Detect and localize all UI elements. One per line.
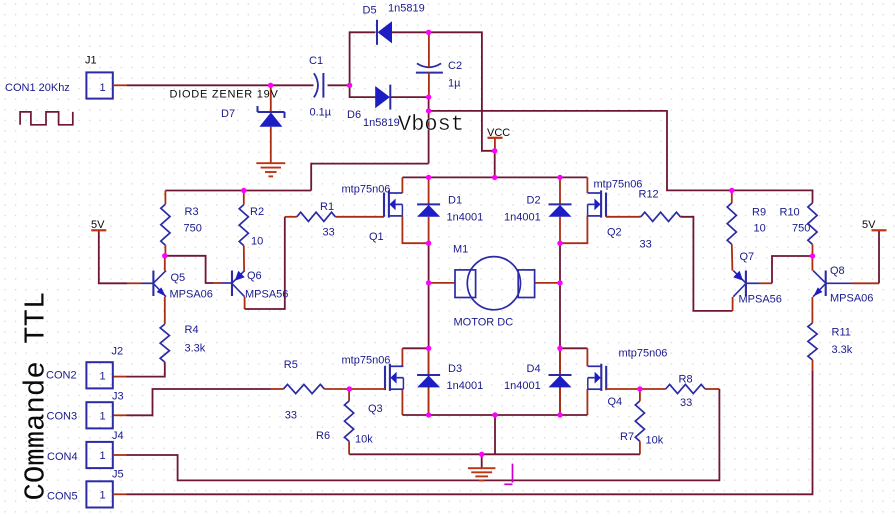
resistor R8	[640, 388, 666, 390]
power symbol 5V right bar	[872, 229, 887, 231]
svg-text:D3: D3	[448, 363, 462, 375]
wire Q6 collector down	[244, 297, 246, 309]
transistor Q3 mtp75n06	[384, 366, 386, 390]
power symbol 5V left bar	[91, 229, 106, 231]
svg-text:R12: R12	[639, 188, 659, 200]
wire D1 cathode lead	[428, 177, 430, 204]
wire D4 leads	[559, 348, 561, 375]
wire Q8 collector lead	[811, 256, 813, 271]
svg-text:1: 1	[100, 490, 106, 502]
wire D2 anode lead	[559, 217, 561, 243]
wire R1 left lead	[285, 216, 297, 218]
wire Q5 node to Q6 base jog	[165, 256, 213, 283]
wire Q5 emitter to R4	[164, 297, 166, 324]
svg-text:3.3k: 3.3k	[185, 343, 206, 355]
svg-text:1: 1	[100, 410, 106, 422]
svg-text:Q7: Q7	[740, 251, 755, 263]
svg-text:mtp75n06: mtp75n06	[342, 183, 391, 195]
transistor Q4 mtp75n06	[605, 366, 607, 390]
wire bridge right leg	[559, 243, 561, 415]
wire R2 bottom lead to Q6 emitter	[243, 246, 245, 271]
wire Q3 drain to left leg	[402, 347, 428, 349]
svg-text:R11: R11	[832, 326, 851, 338]
power symbol VCC bar	[488, 137, 503, 139]
motor M1 right terminal box	[518, 270, 534, 298]
wire Q3 source to bottom rail	[401, 389, 403, 415]
svg-text:M1: M1	[453, 244, 468, 256]
svg-text:1n5819: 1n5819	[363, 117, 400, 129]
resistor R4	[160, 324, 169, 362]
svg-text:750: 750	[184, 223, 202, 235]
svg-text:VCC: VCC	[487, 127, 510, 139]
svg-text:Q4: Q4	[608, 396, 623, 408]
svg-text:CON1 20Khz: CON1 20Khz	[5, 82, 70, 94]
svg-text:J3: J3	[112, 390, 124, 402]
capacitor C2	[417, 63, 441, 67]
svg-text:D5: D5	[363, 5, 377, 17]
svg-text:MPSA56: MPSA56	[739, 294, 782, 306]
svg-text:Q3: Q3	[368, 403, 383, 415]
svg-text:Vbost: Vbost	[398, 112, 464, 137]
transistor Q5 MPSA06	[152, 271, 154, 297]
ground symbol center	[468, 467, 496, 469]
transistor Q6 MPSA56	[231, 271, 233, 297]
wire R2 top lead	[243, 191, 245, 205]
transistor Q7 MPSA56	[745, 271, 747, 297]
svg-text:J4: J4	[112, 430, 124, 442]
svg-text:10: 10	[251, 236, 263, 248]
diode D6 1n5819	[389, 85, 391, 110]
wire D3 leads	[428, 348, 430, 375]
svg-text:R3: R3	[185, 206, 199, 218]
wire C2 bottom lead	[428, 73, 430, 98]
wire Q8 emitter to R11	[811, 297, 813, 323]
wire Q3 gate from R5 junction	[349, 388, 385, 390]
no-ERC marker	[512, 464, 514, 483]
wire Vbost to R3/R2 rail	[311, 164, 428, 191]
svg-text:MOTOR DC: MOTOR DC	[454, 316, 514, 328]
connector J1 box	[86, 72, 112, 98]
resistor R6	[348, 389, 350, 401]
svg-text:MPSA56: MPSA56	[245, 289, 288, 301]
wire D5 cathode to C2 top junction	[392, 31, 429, 33]
svg-text:R5: R5	[284, 359, 298, 371]
svg-text:MPSA06: MPSA06	[170, 289, 213, 301]
svg-text:33: 33	[285, 410, 297, 422]
svg-text:1: 1	[100, 450, 106, 462]
wire J3 pin lead	[113, 414, 127, 416]
wire Q5 collector lead	[164, 256, 166, 271]
diode zener D7	[258, 111, 285, 113]
svg-text:R4: R4	[185, 324, 199, 336]
svg-text:D1: D1	[448, 194, 462, 206]
wire CON5 from J5 to R11	[113, 493, 127, 495]
wire R11 bottom to CON5 wire	[812, 360, 814, 371]
wire rail R3 to R2 to corner	[165, 190, 311, 192]
svg-text:R6: R6	[316, 430, 330, 442]
wire R12 from Q2 gate	[606, 216, 641, 218]
motor M1 body circle	[467, 257, 520, 310]
diode D3 1n4001	[417, 374, 440, 376]
svg-text:10: 10	[754, 223, 766, 235]
wire node Vbost vertical	[428, 97, 430, 164]
wire Q4 drain to right leg	[560, 347, 587, 349]
svg-text:0.1µ: 0.1µ	[310, 107, 332, 119]
wire ground stem	[481, 454, 483, 468]
wire C2 top junction right and down to VCC	[429, 32, 495, 177]
svg-text:1: 1	[100, 370, 106, 382]
svg-text:Q6: Q6	[247, 270, 262, 282]
svg-text:Q1: Q1	[369, 231, 384, 243]
wire Q4 source to bottom rail	[586, 389, 588, 415]
wire Q6 collector to R1 riser	[245, 217, 285, 309]
svg-text:mtp75n06: mtp75n06	[619, 348, 668, 360]
resistor R10	[808, 203, 817, 245]
svg-text:1n4001: 1n4001	[447, 380, 484, 392]
diode D2 1n4001	[549, 203, 572, 205]
svg-text:R1: R1	[320, 201, 334, 213]
wire J1 to C1 (net CON1)	[127, 84, 314, 86]
wire D7 anode to ground	[270, 127, 272, 163]
wire VCC stem	[494, 138, 496, 151]
wire Q4 gate to R8 junction	[606, 388, 640, 390]
connector J2 box	[86, 362, 112, 388]
svg-text:R2: R2	[250, 206, 264, 218]
wire ground tap from bottom rail	[494, 415, 496, 454]
diode D1 1n4001	[417, 203, 440, 205]
motor M1 left terminal box	[455, 270, 476, 298]
svg-text:3.3k: 3.3k	[832, 344, 853, 356]
connector J5 box	[86, 481, 112, 507]
svg-text:33: 33	[680, 397, 692, 409]
diode D4 1n4001	[549, 374, 572, 376]
diode D5 1n5819	[376, 20, 378, 45]
svg-text:Q2: Q2	[607, 226, 622, 238]
svg-text:5V: 5V	[862, 219, 876, 231]
svg-text:J2: J2	[112, 345, 124, 357]
svg-text:1n4001: 1n4001	[504, 212, 541, 224]
svg-text:1: 1	[100, 82, 106, 94]
resistor R2	[239, 205, 248, 246]
wire H-bridge top rail VCC	[402, 176, 587, 178]
svg-text:750: 750	[792, 223, 810, 235]
wire motor left terminal	[429, 282, 455, 284]
resistor R12	[641, 212, 681, 221]
wire R3 top corner	[164, 191, 166, 205]
svg-text:J1: J1	[85, 55, 97, 67]
wire Q8 base to 5V	[826, 282, 852, 284]
resistor R5	[271, 388, 284, 390]
svg-text:1n4001: 1n4001	[504, 380, 541, 392]
wire Q7 base to R10 node	[746, 282, 759, 284]
resistor R7	[639, 389, 641, 401]
svg-text:1µ: 1µ	[448, 77, 461, 89]
svg-text:R10: R10	[780, 206, 800, 218]
svg-text:R9: R9	[752, 206, 766, 218]
wire D6 cathode to C2 bottom junction	[390, 96, 428, 98]
svg-text:C1: C1	[309, 55, 323, 67]
wire D2 cathode lead	[559, 177, 561, 204]
wire CON4 from J4 to R8	[113, 454, 127, 456]
svg-text:DIODE ZENER 19V: DIODE ZENER 19V	[170, 89, 279, 101]
svg-text:COmmande TTL: COmmande TTL	[20, 292, 53, 501]
wire net Vbost to right side	[429, 111, 813, 203]
wire H-bridge bottom rail	[402, 414, 587, 416]
wire R12 to Q7 collector	[680, 217, 732, 311]
svg-text:mtp75n06: mtp75n06	[594, 179, 643, 191]
square wave symbol	[20, 112, 73, 125]
svg-text:R8: R8	[679, 374, 693, 386]
svg-text:C2: C2	[448, 60, 462, 72]
transistor Q1 mtp75n06	[383, 193, 385, 217]
wire C1 output to junction	[328, 84, 350, 86]
wire C1 junction up to D5 anode	[350, 32, 376, 85]
svg-text:Q5: Q5	[171, 272, 186, 284]
svg-text:J5: J5	[112, 469, 124, 481]
svg-text:1n4001: 1n4001	[447, 212, 484, 224]
wire C2 top lead	[428, 32, 430, 67]
svg-text:33: 33	[323, 227, 335, 239]
svg-text:D7: D7	[221, 108, 235, 120]
svg-text:10k: 10k	[355, 433, 373, 445]
wire 5V right stem	[878, 230, 880, 283]
transistor Q8 MPSA06	[825, 271, 827, 297]
resistor R1	[297, 212, 336, 221]
svg-text:D6: D6	[347, 109, 361, 121]
svg-text:D4: D4	[527, 363, 541, 375]
wire bridge left leg	[428, 243, 430, 415]
wire Q7 collector lead	[732, 297, 734, 311]
wire J3 to R5	[127, 389, 271, 415]
svg-text:MPSA06: MPSA06	[830, 292, 873, 304]
wire R4 bottom to J2	[127, 362, 165, 377]
resistor R9	[731, 190, 733, 203]
svg-text:mtp75n06: mtp75n06	[342, 355, 391, 367]
wire ground bus R6 to R7	[349, 453, 640, 455]
wire Q1 source to node A	[402, 216, 428, 243]
svg-text:10k: 10k	[646, 435, 664, 447]
resistor R11	[808, 323, 817, 360]
wire R3 bottom lead	[164, 245, 166, 256]
svg-text:33: 33	[640, 238, 652, 250]
wire D1 anode lead	[428, 217, 430, 243]
svg-text:5V: 5V	[91, 219, 105, 231]
wire J1 pin lead	[113, 84, 127, 86]
transistor Q2 mtp75n06	[605, 193, 607, 217]
wire 5V left stem to Q5 base	[99, 230, 127, 283]
wire zener tap down to D7	[270, 85, 272, 112]
wire Q2 source to node B	[560, 216, 587, 243]
svg-text:1n5819: 1n5819	[388, 2, 425, 14]
junction dots	[268, 83, 273, 88]
svg-text:R7: R7	[620, 431, 634, 443]
connector J3 box	[86, 402, 112, 428]
svg-text:Q8: Q8	[830, 265, 845, 277]
wire Q2 drain	[586, 177, 588, 193]
resistor R3	[161, 204, 170, 245]
connector J4 box	[86, 442, 112, 468]
wire Q1 drain	[401, 177, 403, 193]
wire motor right terminal	[535, 282, 560, 284]
wire R1 to Q1 gate	[335, 216, 384, 218]
svg-text:D2: D2	[527, 194, 541, 206]
capacitor C1	[314, 73, 318, 97]
ground under D7	[256, 162, 285, 164]
wire C1 junction down to D6 anode	[350, 85, 376, 97]
